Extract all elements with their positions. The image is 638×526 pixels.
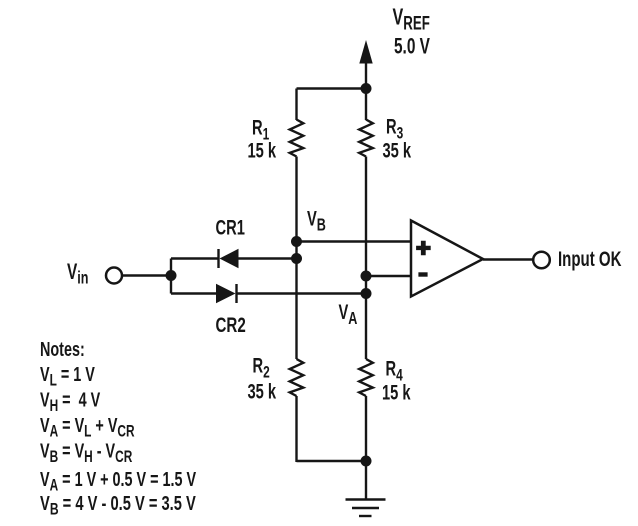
wire top horizontal: [297, 87, 367, 89]
node VB CR1 junction: [291, 253, 302, 264]
terminal Input OK: [533, 252, 550, 269]
diode CR1: [219, 249, 239, 268]
wire left branch upper: [295, 89, 297, 121]
svg-text:VH = 4 V: VH = 4 V: [40, 388, 100, 415]
svg-text:15 k: 15 k: [382, 381, 411, 404]
wire right branch middle: [365, 157, 367, 360]
ground: [346, 461, 386, 516]
svg-text:VA: VA: [339, 300, 358, 328]
svg-text:R2: R2: [253, 354, 270, 382]
svg-text:VB: VB: [307, 207, 326, 235]
svg-text:35 k: 35 k: [248, 380, 277, 403]
wire left branch lower: [295, 396, 297, 462]
wire right branch lower: [365, 396, 367, 461]
svg-text:VL = 1 V: VL = 1 V: [40, 363, 95, 390]
wire CR1 left: [171, 257, 219, 259]
svg-text:CR2: CR2: [216, 312, 246, 336]
node VREF junction: [361, 83, 372, 94]
svg-text:Vin: Vin: [67, 260, 88, 288]
svg-text:VA = VL + VCR: VA = VL + VCR: [40, 414, 135, 441]
notes text block: [40, 338, 196, 519]
svg-text:VB = VH - VCR: VB = VH - VCR: [40, 439, 133, 466]
node VA tap: [361, 271, 372, 282]
svg-text:VB = 4 V - 0.5 V = 3.5 V: VB = 4 V - 0.5 V = 3.5 V: [40, 492, 196, 519]
svg-text:Notes:: Notes:: [40, 338, 85, 361]
wire left branch middle: [295, 157, 297, 360]
svg-text:15 k: 15 k: [248, 139, 277, 162]
wire right branch upper: [365, 89, 367, 121]
wire CR1 to VB: [239, 257, 297, 259]
node VB tap: [291, 236, 302, 247]
svg-text:5.0 V: 5.0 V: [394, 35, 430, 59]
resistor R3: [359, 120, 373, 157]
svg-text:Input OK: Input OK: [558, 246, 622, 270]
wire CR2 left: [171, 292, 217, 294]
op-amp U1: [411, 221, 483, 297]
node VA CR2 junction: [361, 288, 372, 299]
op-amp plus pin mark: [416, 241, 431, 256]
wire CR2 to VA: [237, 292, 367, 294]
resistor R1: [290, 120, 304, 157]
svg-text:VREF: VREF: [393, 5, 430, 34]
diode CR2: [216, 284, 237, 303]
resistor R2: [290, 359, 304, 396]
op-amp minus pin mark: [418, 272, 427, 276]
wire input split vertical: [170, 259, 172, 294]
svg-text:35 k: 35 k: [383, 139, 412, 162]
wire VB to op-amp plus: [297, 240, 413, 242]
power VREF arrow: [359, 40, 372, 89]
svg-text:CR1: CR1: [216, 216, 245, 239]
wire bottom horizontal: [297, 460, 367, 462]
node ground junction: [361, 456, 372, 467]
resistor R4: [359, 359, 373, 396]
wire Vin to junction: [123, 274, 172, 276]
wire VA to op-amp minus: [366, 275, 412, 277]
node Vin junction: [166, 270, 177, 281]
terminal Vin: [106, 268, 122, 284]
wire op-amp output: [483, 258, 533, 260]
